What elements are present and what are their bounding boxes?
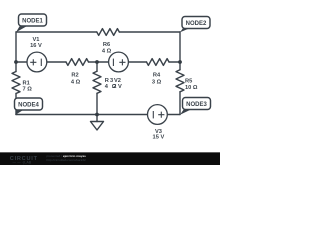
- svg-text:http://circuitlab.com/c/kark32: http://circuitlab.com/c/kark32: [47, 158, 86, 162]
- svg-text:NODE3: NODE3: [186, 102, 207, 108]
- svg-text:V2: V2: [114, 78, 121, 84]
- svg-text:NODE4: NODE4: [18, 103, 39, 109]
- svg-text:4 Ω: 4 Ω: [102, 48, 112, 54]
- svg-text:— — ·|LAB: — — ·|LAB: [13, 161, 32, 165]
- svg-text:NODE1: NODE1: [22, 19, 43, 25]
- svg-text:R3: R3: [105, 78, 114, 84]
- svg-text:3 Ω: 3 Ω: [152, 80, 162, 86]
- svg-text:NODE2: NODE2: [186, 21, 207, 27]
- svg-text:10 Ω: 10 Ω: [185, 85, 198, 91]
- svg-text:4 Ω: 4 Ω: [71, 79, 81, 85]
- svg-text:7 Ω: 7 Ω: [23, 87, 33, 93]
- svg-text:R5: R5: [185, 78, 192, 84]
- svg-text:2 V: 2 V: [113, 84, 122, 90]
- svg-text:R4: R4: [153, 73, 161, 79]
- svg-text:15 V: 15 V: [153, 135, 165, 141]
- svg-text:16 V: 16 V: [30, 43, 42, 49]
- svg-text:R6: R6: [103, 42, 110, 48]
- svg-text:R2: R2: [71, 73, 78, 79]
